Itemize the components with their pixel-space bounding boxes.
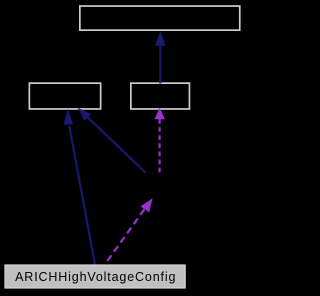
node box (top, label hidden black-on-black): [80, 6, 240, 30]
arrowhead into middle-left box (near-vertical): [63, 109, 73, 125]
node box ARICHHighVoltageConfig (current node, bottom): [5, 265, 185, 288]
wire: solid inheritance edge, middle-right box up to top box: [159, 45, 161, 84]
arrowhead into middle-left box (diagonal): [78, 108, 91, 121]
arrowhead at label junction (purple, diagonal): [141, 198, 153, 212]
wire: solid inheritance edge, label junction up-left to middle-left box: [88, 118, 146, 173]
wire: solid inheritance edge, bottom box up to middle-left box: [69, 126, 95, 265]
node box (middle-left, label hidden black-on-black): [29, 83, 100, 109]
svg-text:ARICHHighVoltageConfig: ARICHHighVoltageConfig: [15, 270, 176, 284]
node box (middle-right, label hidden black-on-black): [131, 83, 190, 109]
arrowhead of inheritance edge into top box: [155, 31, 166, 46]
wire: dashed usage edge, label junction up to middle-right box: [159, 119, 161, 173]
wire: dashed usage edge, bottom box up-right to label junction: [105, 209, 145, 264]
arrowhead into middle-right box (purple): [155, 108, 166, 120]
